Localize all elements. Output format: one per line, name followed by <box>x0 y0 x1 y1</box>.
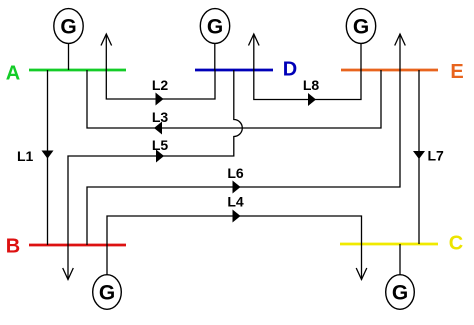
svg-text:C: C <box>449 233 463 255</box>
bus A <box>6 63 126 85</box>
line L2 (bus A to bus D) <box>106 70 215 106</box>
svg-text:G: G <box>392 282 408 305</box>
svg-text:G: G <box>207 16 223 39</box>
svg-text:L1: L1 <box>17 148 34 164</box>
generator G5 (below bus C) <box>386 244 415 309</box>
svg-text:L3: L3 <box>152 109 169 125</box>
line L5 (bus B to bus D, with hop over L3) <box>68 70 242 245</box>
bus D <box>195 59 297 81</box>
svg-text:G: G <box>60 16 76 39</box>
load arrow at bus B (down) <box>63 245 74 280</box>
line L4 (bus B to bus C) <box>107 194 362 246</box>
load arrow at bus D (up) <box>249 34 260 70</box>
svg-text:E: E <box>450 61 463 83</box>
svg-text:L8: L8 <box>303 77 320 93</box>
svg-text:B: B <box>6 236 20 258</box>
load arrow at bus E (up) <box>395 34 406 70</box>
svg-text:G: G <box>99 282 115 305</box>
svg-text:L7: L7 <box>428 148 445 164</box>
load arrow at bus A (up) <box>101 34 112 70</box>
svg-text:A: A <box>6 63 20 85</box>
generator G1 (above bus A) <box>54 9 83 70</box>
generator G2 (above bus D) <box>200 9 229 70</box>
svg-text:L6: L6 <box>227 165 244 181</box>
bus B <box>6 236 126 258</box>
line L1 (bus A to bus B) <box>17 70 54 245</box>
generator G4 (below bus B) <box>93 245 122 309</box>
svg-text:G: G <box>353 16 369 39</box>
load arrow at bus C (down) <box>356 244 367 280</box>
svg-text:L5: L5 <box>152 137 169 153</box>
svg-text:L2: L2 <box>152 77 169 93</box>
svg-text:L4: L4 <box>227 194 244 210</box>
svg-text:D: D <box>283 59 297 81</box>
bus C <box>340 233 463 255</box>
line L7 (bus E to bus C) <box>413 70 444 244</box>
line L6 (bus B to bus E) <box>87 70 400 245</box>
line L3 (bus E to bus A) <box>87 70 381 135</box>
bus E <box>341 61 464 83</box>
line L8 (bus D to bus E) <box>254 70 361 106</box>
generator G3 (above bus E) <box>346 9 375 70</box>
